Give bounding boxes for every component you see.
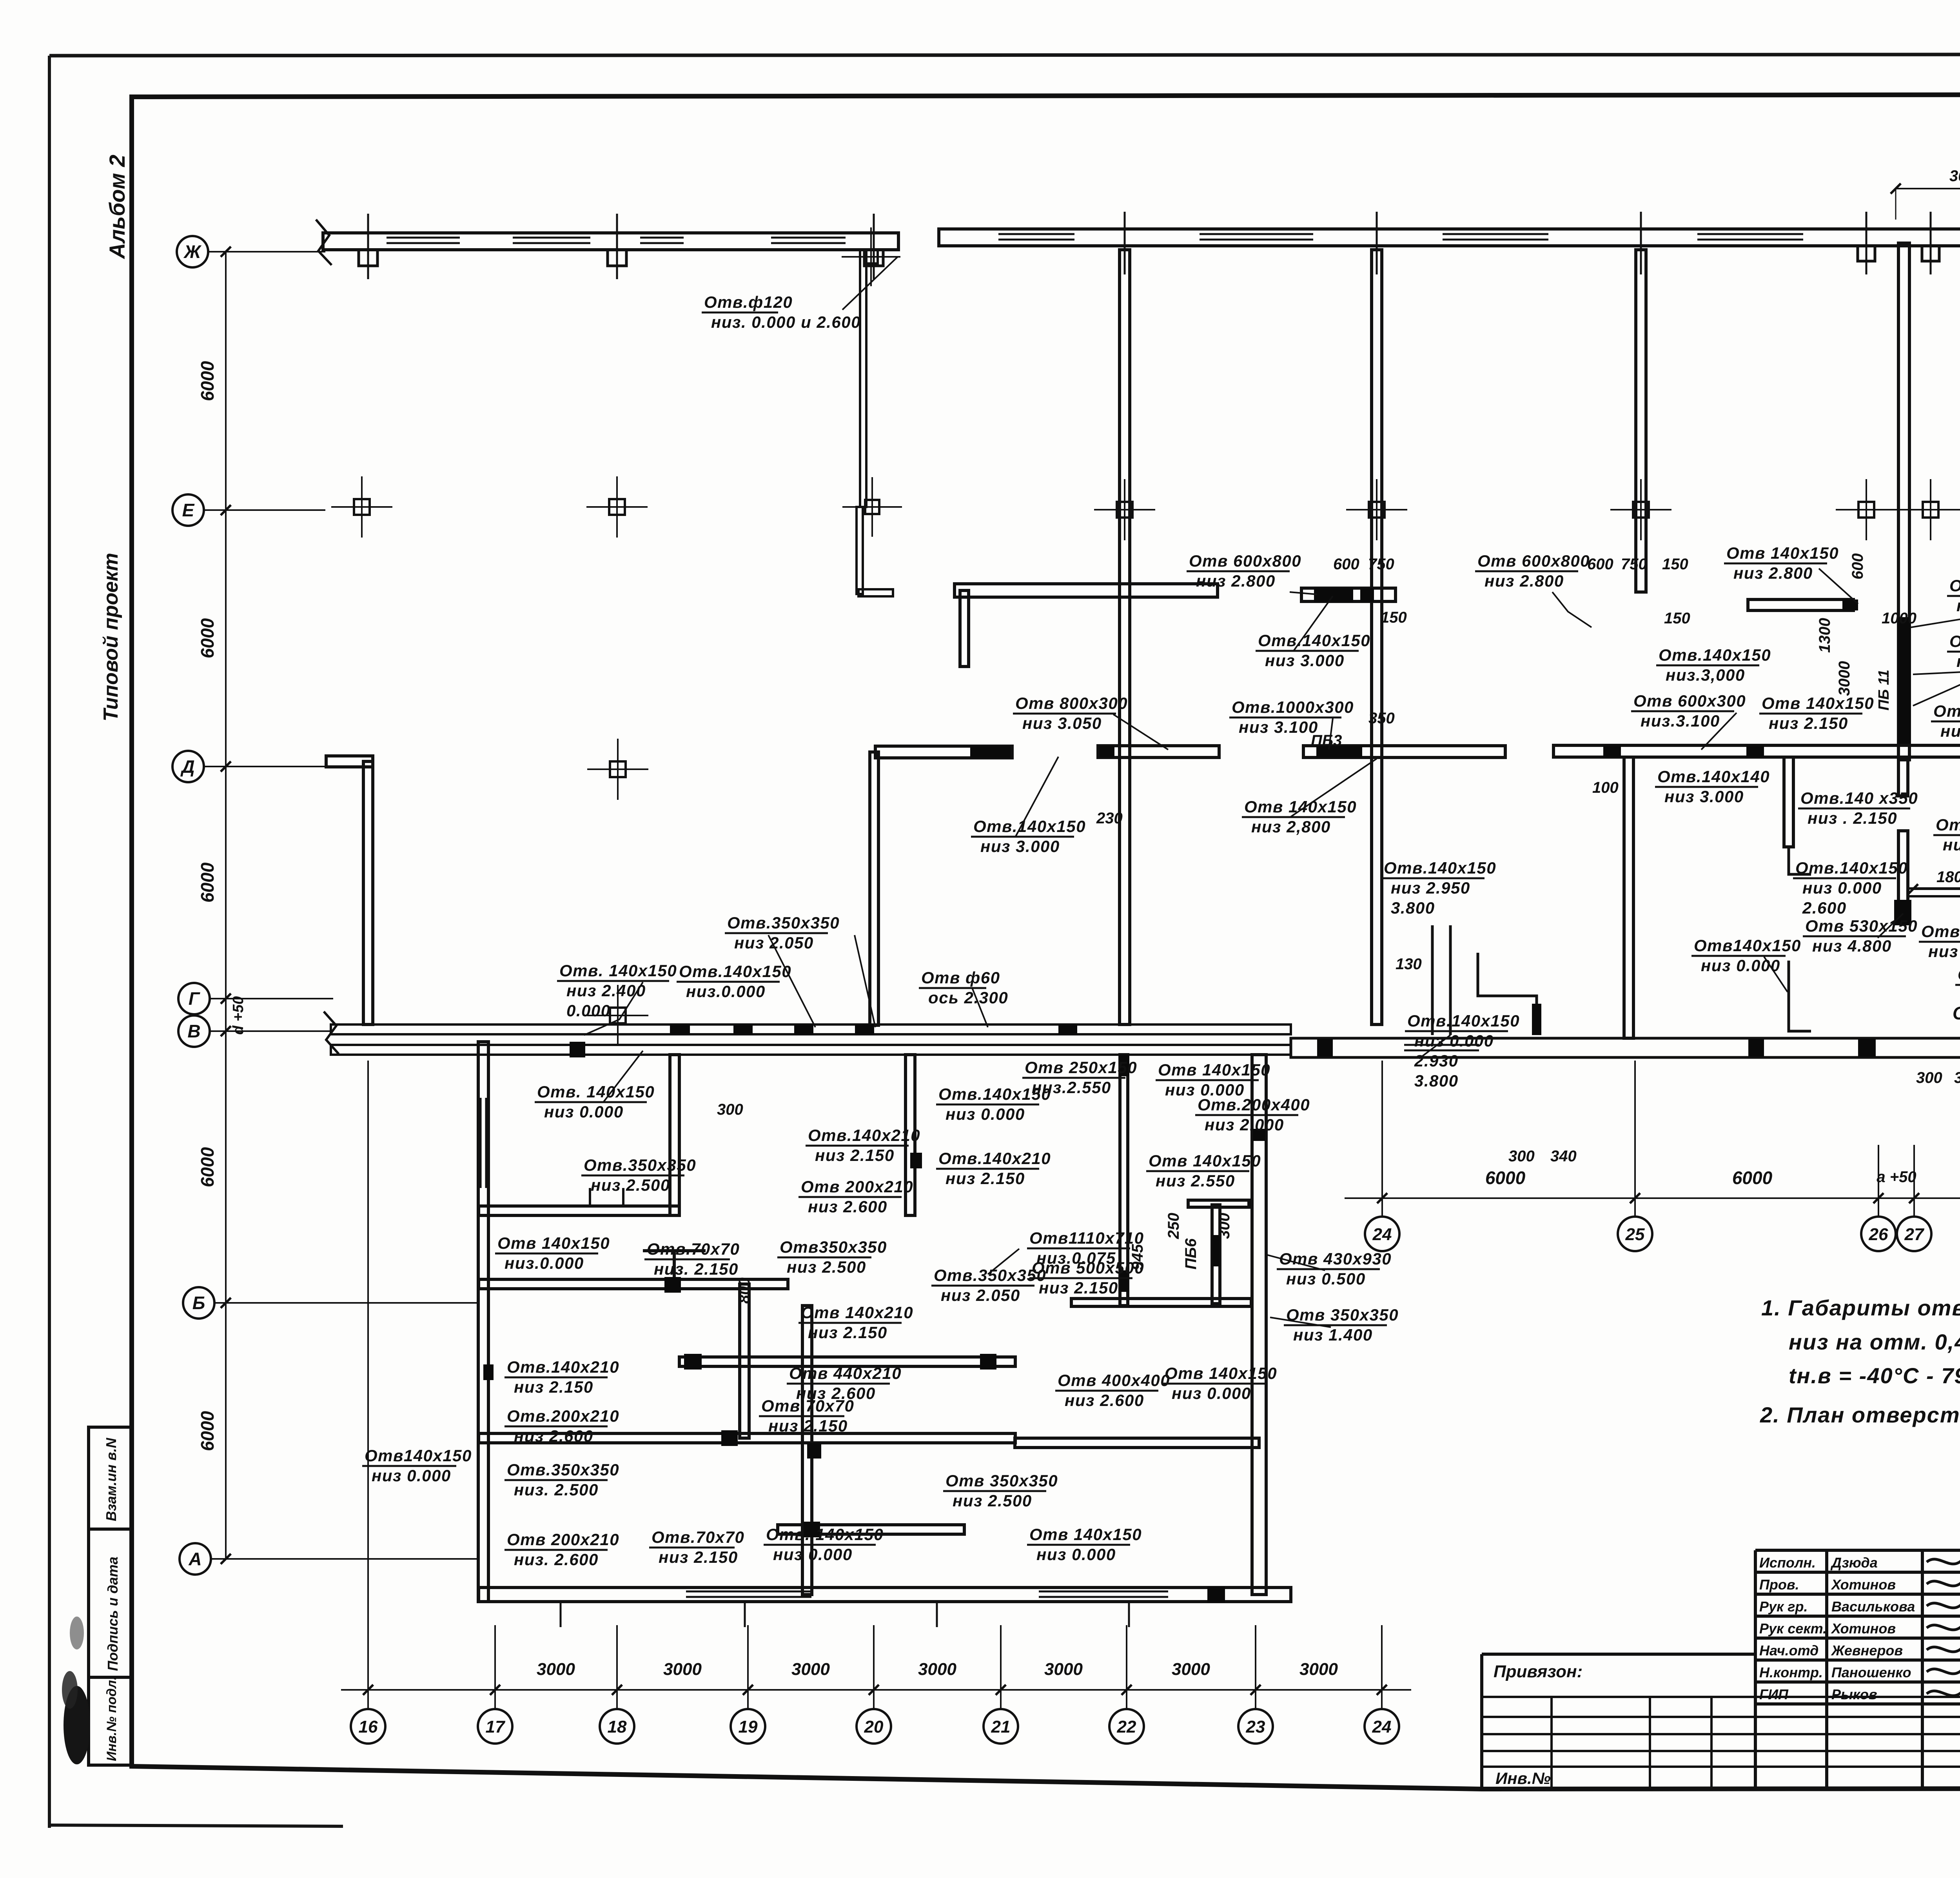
svg-text:низ. 0.000 и 2.600: низ. 0.000 и 2.600 — [711, 313, 861, 331]
svg-text:Отв 600х800: Отв 600х800 — [1477, 552, 1590, 570]
wall foot at row E-D — [858, 589, 893, 596]
svg-text:0.000: 0.000 — [566, 1001, 611, 1020]
svg-text:Отв 350х350: Отв 350х350 — [946, 1471, 1058, 1490]
interior wall x2193 lower — [857, 507, 863, 594]
column at wall top — [864, 250, 878, 263]
svg-text:низ. 2.600: низ. 2.600 — [514, 1550, 599, 1569]
break mark row G — [324, 1012, 339, 1054]
svg-text:3000: 3000 — [1044, 1660, 1083, 1679]
svg-text:Б: Б — [192, 1293, 205, 1313]
svg-text:ПБ 11: ПБ 11 — [1876, 670, 1892, 710]
axis line 16 — [367, 1625, 369, 1709]
PB6 lintel wall — [1908, 888, 1960, 896]
svg-text:Нач.отд: Нач.отд — [1759, 1642, 1818, 1658]
svg-text:низ 2.150: низ 2.150 — [808, 1323, 887, 1342]
svg-text:низ 2.950: низ 2.950 — [1391, 879, 1470, 897]
svg-text:300: 300 — [1954, 1069, 1960, 1086]
svg-text:6000: 6000 — [197, 1411, 218, 1451]
svg-text:низ 3.000: низ 3.000 — [1265, 651, 1345, 670]
svg-text:Отв 200х210: Отв 200х210 — [507, 1530, 619, 1549]
svg-text:Хотинов: Хотинов — [1831, 1620, 1896, 1637]
opening row G wall — [1748, 1039, 1764, 1057]
svg-text:150: 150 — [1662, 556, 1688, 573]
axis 16 line upper part — [367, 1061, 369, 1625]
leader line — [1419, 1035, 1450, 1059]
svg-text:ось 2.300: ось 2.300 — [928, 988, 1008, 1007]
svg-text:Отв 800х300: Отв 800х300 — [1015, 694, 1128, 712]
svg-text:низ 2,800: низ 2,800 — [1251, 817, 1331, 836]
opening row G wall — [1317, 1039, 1333, 1057]
leader line — [972, 988, 988, 1027]
dim line 1800 — [1913, 888, 1960, 890]
axis tick — [1376, 212, 1378, 274]
wall y1530 segment c — [1748, 599, 1853, 610]
svg-text:Отв 200х200: Отв 200х200 — [1933, 702, 1960, 720]
axis circle А — [180, 1543, 211, 1575]
svg-text:2.930: 2.930 — [1414, 1052, 1459, 1070]
svg-text:низ 0.000: низ 0.000 — [1701, 956, 1780, 975]
lower block west wall — [478, 1042, 488, 1602]
svg-text:Рыков: Рыков — [1831, 1686, 1877, 1702]
svg-text:6000: 6000 — [197, 862, 218, 903]
svg-text:600: 600 — [1587, 556, 1613, 573]
svg-text:низ 2.150: низ 2.150 — [946, 1169, 1025, 1188]
axis line 27 — [1913, 1145, 1915, 1217]
row D wall segment c — [1303, 746, 1505, 757]
svg-text:230: 230 — [1096, 810, 1123, 827]
svg-text:Отв.140х210: Отв.140х210 — [808, 1126, 920, 1144]
svg-text:низ 2.600: низ 2.600 — [514, 1427, 593, 1445]
interior wall axis 25 — [1636, 250, 1646, 592]
opening on row G wall — [670, 1024, 690, 1034]
svg-text:Альбом 2: Альбом 2 — [105, 154, 129, 260]
hook room near axis 24 — [1478, 953, 1537, 1035]
opening mark lower block — [684, 1354, 702, 1370]
axis circle 26 — [1861, 1217, 1896, 1251]
opening on row D wall — [1746, 745, 1764, 757]
leader line — [1270, 1317, 1331, 1327]
svg-text:Отв.140х150: Отв.140х150 — [679, 962, 791, 981]
svg-text:Отв 500х500: Отв 500х500 — [1032, 1259, 1144, 1277]
svg-text:3000: 3000 — [1836, 661, 1853, 696]
opening row G wall — [1858, 1039, 1876, 1057]
svg-text:tн.в = -40°С - 795х1140 (h): tн.в = -40°С - 795х1140 (h) низ на отм. … — [1789, 1363, 1960, 1388]
svg-text:Отв 140х150: Отв 140х150 — [1762, 694, 1874, 712]
svg-text:945: 945 — [1129, 1244, 1146, 1270]
opening mark lower block — [664, 1277, 681, 1293]
window in north wall — [387, 237, 460, 239]
interior — [479, 1279, 788, 1289]
leader f120 — [842, 257, 898, 310]
svg-text:3000: 3000 — [1299, 1660, 1338, 1679]
svg-text:низ 2.150: низ 2.150 — [815, 1146, 895, 1164]
axis circle 27 — [1897, 1217, 1931, 1251]
svg-text:низ.0.000: низ.0.000 — [686, 982, 766, 1001]
svg-text:низ . 2.150: низ . 2.150 — [1808, 809, 1897, 827]
svg-text:6000: 6000 — [1485, 1168, 1526, 1188]
row D wall segment b — [1098, 746, 1219, 757]
svg-text:a +50: a +50 — [1877, 1168, 1916, 1186]
svg-text:Отв 350х350: Отв 350х350 — [1286, 1306, 1399, 1324]
column mark under wall — [1922, 246, 1939, 261]
svg-text:А: А — [188, 1549, 201, 1569]
interior wall axis 21-22 — [1120, 250, 1130, 1024]
svg-text:низ 2.000: низ 2.000 — [1205, 1115, 1284, 1134]
svg-text:низ 2.150: низ 2.150 — [659, 1548, 738, 1566]
svg-text:18: 18 — [608, 1717, 627, 1737]
svg-text:низ 2.050: низ 2.050 — [941, 1286, 1020, 1304]
svg-text:низ 4.800: низ 4.800 — [1812, 937, 1892, 955]
north wall segment axes 20-27 — [939, 229, 1960, 246]
interior wall — [1784, 757, 1793, 847]
wall y1500 segment b — [1301, 588, 1396, 601]
svg-text:21: 21 — [991, 1717, 1011, 1737]
svg-text:низ 2.300: низ 2.300 — [1940, 722, 1960, 740]
axis circle 25 — [1618, 1217, 1652, 1251]
axis circle 21 — [984, 1709, 1018, 1744]
svg-text:Отв 600х300: Отв 600х300 — [1633, 692, 1746, 710]
svg-text:низ 3,550: низ 3,550 — [1943, 836, 1960, 854]
svg-text:Отв 600х800: Отв 600х800 — [1189, 552, 1301, 570]
column row E on wall — [865, 500, 879, 514]
row G wall left — [331, 1024, 1291, 1034]
window row G wall — [1404, 1044, 1479, 1046]
svg-text:3000: 3000 — [1172, 1660, 1210, 1679]
opening mark lower block — [980, 1354, 996, 1370]
svg-text:низ 2.150: низ 2.150 — [768, 1417, 848, 1435]
interior room wall — [1120, 1055, 1128, 1306]
svg-text:Паношенко: Паношенко — [1831, 1664, 1911, 1680]
axis circle Е — [172, 494, 204, 526]
PB11 dark bar — [1898, 617, 1911, 745]
svg-text:Привязон:: Привязон: — [1494, 1662, 1583, 1681]
interior — [479, 1433, 1015, 1443]
interior — [778, 1525, 964, 1534]
dark mark — [1119, 1055, 1129, 1076]
svg-text:3.800: 3.800 — [1391, 899, 1435, 917]
svg-text:300: 300 — [1508, 1148, 1535, 1165]
svg-text:Отв. 140х150: Отв. 140х150 — [559, 961, 677, 980]
left title table — [1482, 1653, 1755, 1656]
svg-text:d +50: d +50 — [230, 996, 247, 1035]
svg-text:3000: 3000 — [537, 1660, 575, 1679]
svg-text:низ 2.050: низ 2.050 — [734, 934, 814, 952]
svg-text:Отв 1000х950: Отв 1000х950 — [1921, 922, 1960, 941]
opening — [1100, 746, 1114, 757]
svg-text:низ 2.800: низ 2.800 — [1733, 564, 1813, 582]
svg-text:ГИП: ГИП — [1759, 1686, 1789, 1702]
column row D axis 18 — [610, 761, 626, 777]
svg-text:Взам.ин в.N: Взам.ин в.N — [103, 1437, 119, 1521]
svg-text:27: 27 — [1904, 1225, 1925, 1244]
svg-text:24: 24 — [1372, 1717, 1392, 1737]
svg-text:750: 750 — [1621, 556, 1647, 573]
leader line — [855, 935, 875, 1027]
lower block east wall — [1252, 1055, 1266, 1595]
door hook — [1789, 847, 1811, 874]
opening 1000x300 — [1316, 746, 1362, 757]
svg-text:низ.3.100: низ.3.100 — [1641, 712, 1720, 730]
interior — [479, 1206, 679, 1215]
svg-text:Пров.: Пров. — [1759, 1577, 1799, 1593]
svg-text:Отв.200х210: Отв.200х210 — [507, 1407, 619, 1425]
svg-text:Отв.140х150: Отв.140х150 — [1407, 1012, 1520, 1030]
svg-text:низ 2.800: низ 2.800 — [1196, 572, 1276, 590]
svg-text:800: 800 — [736, 1277, 753, 1304]
row D wall segment d — [1553, 745, 1960, 757]
svg-text:низ 2.800: низ 2.800 — [1485, 572, 1564, 590]
svg-text:Отв 140х150: Отв 140х150 — [1726, 544, 1839, 562]
opening 530x150 — [1894, 900, 1911, 925]
svg-text:Отв.140х150: Отв.140х150 — [1795, 859, 1908, 877]
axis circle 20 — [857, 1709, 891, 1744]
opening mark lower block — [570, 1042, 585, 1057]
svg-text:Отв 140х150: Отв 140х150 — [1029, 1525, 1142, 1544]
door jamb hooks — [589, 1188, 591, 1206]
svg-text:низ 3.100: низ 3.100 — [1239, 718, 1318, 736]
svg-text:Отв.140х210: Отв.140х210 — [938, 1149, 1051, 1168]
interior — [802, 1306, 812, 1595]
svg-text:Отв.140х150: Отв.140х150 — [1384, 859, 1496, 877]
svg-text:низ 2.600: низ 2.600 — [796, 1384, 876, 1402]
svg-text:Отв 140х150: Отв 140х150 — [1149, 1152, 1261, 1170]
axis circle 18 — [600, 1709, 634, 1744]
middle dimension line axes 24-29 — [1345, 1197, 1960, 1199]
opening on row G wall — [855, 1024, 874, 1034]
svg-text:Исполн.: Исполн. — [1759, 1555, 1816, 1571]
opening mark lower block — [804, 1522, 820, 1537]
leader line — [1819, 569, 1858, 604]
svg-text:низ.3,000: низ.3,000 — [1666, 666, 1745, 684]
free column row E — [354, 499, 370, 515]
stub below wall — [960, 590, 969, 667]
svg-text:низ 2.150: низ 2.150 — [1769, 714, 1848, 732]
leader line — [1294, 596, 1333, 651]
window in north wall — [1200, 233, 1313, 235]
column on wall — [1369, 502, 1385, 518]
leader line — [604, 1051, 643, 1102]
opening mark lower block — [721, 1430, 738, 1446]
svg-text:Г: Г — [189, 988, 200, 1009]
axis circle 24 — [1365, 1217, 1399, 1251]
svg-text:Отв 140х210: Отв 140х210 — [801, 1303, 913, 1322]
svg-text:низ 2.500: низ 2.500 — [953, 1491, 1032, 1510]
stub below south wall — [936, 1602, 938, 1627]
svg-text:Хотинов: Хотинов — [1831, 1577, 1896, 1593]
svg-text:низ.0.000: низ.0.000 — [505, 1254, 584, 1272]
svg-text:300: 300 — [1216, 1213, 1233, 1239]
row G wall right — [1291, 1038, 1960, 1057]
svg-text:низ 3.550: низ 3.550 — [1928, 942, 1960, 961]
svg-text:Отв.70х70: Отв.70х70 — [652, 1528, 744, 1546]
leader line — [1290, 759, 1377, 817]
free column row E — [1923, 502, 1938, 518]
svg-text:низ 3.050: низ 3.050 — [1022, 714, 1102, 732]
free column row E — [609, 499, 625, 515]
interior room wall — [1212, 1205, 1220, 1304]
interior room wall bottom — [1071, 1299, 1251, 1306]
axis line 18 — [616, 1625, 618, 1709]
stub below south wall — [744, 1602, 746, 1627]
svg-text:низ 3.000: низ 3.000 — [980, 837, 1060, 856]
break mark — [316, 220, 332, 265]
svg-text:3000: 3000 — [791, 1660, 830, 1679]
svg-text:17: 17 — [486, 1717, 506, 1737]
axis circle Г — [178, 983, 210, 1014]
interior wall — [1624, 757, 1633, 1038]
opening on row G wall — [794, 1024, 813, 1034]
svg-text:низ 2.500: низ 2.500 — [787, 1258, 866, 1276]
svg-text:2. План отверстий 2-го эта: 2. План отверстий 2-го этажа на отм. 2.7… — [1760, 1402, 1960, 1427]
axis line 17 — [494, 1625, 496, 1709]
outer scan border left — [48, 56, 51, 1828]
svg-text:Дзюда: Дзюда — [1830, 1555, 1878, 1571]
svg-text:3050: 3050 — [1949, 167, 1960, 185]
svg-text:низ. 2.900: низ. 2.900 — [1956, 596, 1960, 615]
leader line — [584, 982, 643, 1035]
column mark under wall — [608, 250, 626, 266]
axis tick at north wall x=939 — [367, 214, 369, 279]
window in north wall — [513, 237, 590, 239]
interior wall axis 27 — [1898, 243, 1909, 760]
svg-text:Н.контр.: Н.контр. — [1759, 1664, 1823, 1680]
svg-text:низ. 2.150: низ. 2.150 — [654, 1260, 739, 1278]
svg-text:1. Габариты отверстия для: 1. Габариты отверстия для температур: tн… — [1761, 1295, 1960, 1320]
axis tick at north wall x=1574 — [616, 214, 618, 279]
interior — [679, 1357, 1015, 1366]
leader line — [1913, 652, 1960, 706]
interior — [1015, 1438, 1259, 1448]
svg-text:ПБ6: ПБ6 — [1182, 1238, 1200, 1270]
svg-text:130: 130 — [1396, 955, 1422, 973]
svg-text:Отв 140х100: Отв 140х100 — [1949, 632, 1960, 650]
window in south wall — [1039, 1591, 1168, 1593]
axis line 22 — [1126, 1625, 1127, 1709]
axis circle 16 — [351, 1709, 385, 1744]
svg-text:Отв140х150: Отв140х150 — [365, 1446, 472, 1465]
row V wall left — [331, 1045, 1291, 1055]
svg-text:Подпись и дата: Подпись и дата — [105, 1557, 121, 1671]
leader line — [1878, 914, 1903, 938]
svg-text:750: 750 — [1368, 556, 1394, 573]
outer scan border bottom-left stub — [49, 1825, 343, 1826]
svg-text:22: 22 — [1117, 1717, 1136, 1737]
axis circle 24 — [1365, 1709, 1399, 1744]
opening 800x300 — [970, 746, 1011, 758]
svg-text:Инв.№: Инв.№ — [1495, 1769, 1551, 1787]
opening mark lower block — [1207, 1587, 1225, 1602]
svg-text:низ 0.000: низ 0.000 — [372, 1466, 451, 1485]
svg-text:6000: 6000 — [197, 361, 218, 401]
leader line — [1015, 757, 1058, 837]
svg-text:100: 100 — [1592, 779, 1619, 796]
svg-text:Василькова: Василькова — [1831, 1598, 1915, 1615]
svg-text:Типовой проект: Типовой проект — [100, 553, 122, 721]
svg-text:6000: 6000 — [197, 618, 218, 658]
svg-text:Отв 140х150: Отв 140х150 — [1165, 1364, 1277, 1382]
leader line — [1290, 592, 1317, 594]
north wall segment axes 16-20 — [323, 233, 898, 250]
dark mark — [1253, 1129, 1265, 1141]
opening on row G wall — [733, 1024, 753, 1034]
svg-text:низ 2.550: низ 2.550 — [1156, 1172, 1235, 1190]
axis circle Ж — [177, 236, 208, 267]
svg-text:Ж: Ж — [183, 242, 202, 262]
svg-text:2.600: 2.600 — [1802, 899, 1847, 917]
svg-text:Отв. 140х150: Отв. 140х150 — [537, 1083, 655, 1101]
window in west wall — [480, 1098, 482, 1188]
axis circle В — [178, 1015, 210, 1047]
svg-text:низ 0.000: низ 0.000 — [544, 1103, 624, 1121]
wall below D wall axis 27 — [1898, 760, 1908, 796]
signature table — [1755, 1549, 1960, 1552]
svg-text:низ. 2.500: низ. 2.500 — [514, 1480, 599, 1499]
ink smudge — [64, 1686, 90, 1764]
leader line — [1266, 1255, 1325, 1270]
svg-text:низ 2.150: низ 2.150 — [514, 1378, 593, 1396]
svg-text:Отв 140х150: Отв 140х150 — [1244, 797, 1357, 816]
svg-text:Отв.140х150: Отв.140х150 — [1659, 646, 1771, 664]
svg-text:Отв.350х350: Отв.350х350 — [934, 1266, 1046, 1284]
axis circle Д — [172, 751, 204, 782]
svg-text:150: 150 — [1381, 609, 1407, 626]
axis line 19 — [747, 1625, 749, 1709]
outer scan border top — [49, 54, 1960, 56]
svg-text:Отв.350х350: Отв.350х350 — [584, 1156, 696, 1174]
svg-text:3000: 3000 — [918, 1660, 956, 1679]
svg-text:Отв.200х400: Отв.200х400 — [1198, 1095, 1310, 1114]
opening — [1360, 588, 1374, 602]
axis tick — [1640, 212, 1642, 274]
svg-text:Жевнеров: Жевнеров — [1831, 1642, 1903, 1658]
svg-text:Отв.140х140: Отв.140х140 — [1657, 767, 1770, 786]
axis line 23 — [1255, 1625, 1256, 1709]
leader line — [1911, 597, 1960, 627]
svg-text:Отв.140х150: Отв.140х150 — [1958, 965, 1960, 984]
svg-text:низ 0.000: низ 0.000 — [1414, 1032, 1494, 1050]
svg-text:Отв.ф120: Отв.ф120 — [704, 293, 793, 311]
svg-text:Отв1110х710: Отв1110х710 — [1029, 1229, 1144, 1247]
axis tick at north wall x=2229 — [873, 214, 875, 279]
opening on row D wall — [1603, 745, 1621, 757]
svg-text:25: 25 — [1625, 1225, 1645, 1244]
svg-text:1300: 1300 — [1816, 618, 1833, 653]
axis line 25 — [1634, 1061, 1636, 1217]
svg-text:1000: 1000 — [1882, 610, 1916, 627]
interior wall x2230 to G — [870, 752, 878, 1025]
free column row E — [1858, 502, 1874, 518]
svg-text:низ 0.000: низ 0.000 — [946, 1105, 1025, 1123]
leader line — [988, 1249, 1019, 1274]
svg-text:600: 600 — [1849, 553, 1866, 579]
lower block south wall — [479, 1588, 1291, 1602]
dim line 3050 — [1896, 188, 1960, 189]
axis line 24 — [1381, 1625, 1383, 1709]
I-beam mark — [643, 1249, 706, 1252]
svg-text:См.прим.1: См.прим.1 — [1953, 1003, 1960, 1023]
interior wall x2202 upper — [860, 250, 866, 507]
svg-text:ПБ3: ПБ3 — [1311, 732, 1342, 749]
leader line — [768, 935, 815, 1027]
svg-text:низ 2.500: низ 2.500 — [591, 1176, 670, 1194]
interior — [906, 1055, 915, 1215]
opening mark lower block — [483, 1364, 494, 1380]
dark door bar — [1532, 1004, 1541, 1035]
interior wall axis 23 — [1372, 250, 1382, 1024]
svg-text:16: 16 — [359, 1717, 378, 1737]
svg-text:1800: 1800 — [1936, 868, 1960, 886]
svg-text:23: 23 — [1246, 1717, 1265, 1737]
